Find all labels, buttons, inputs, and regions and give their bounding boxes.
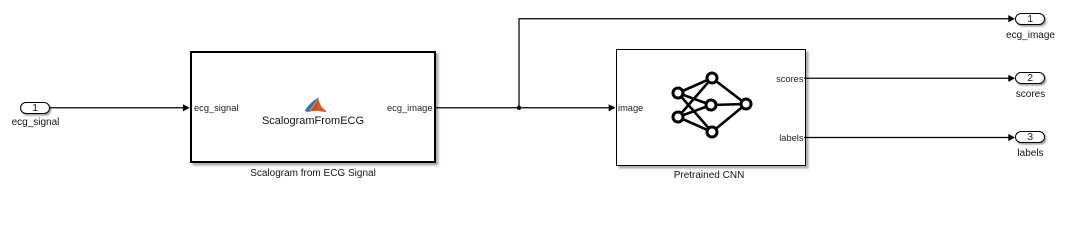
port label ecg_signal (inside subsystem, left) [194, 104, 238, 113]
arrowhead into CNN [609, 104, 616, 111]
port label labels (inside CNN, right) [743, 134, 804, 143]
arrowhead into outport3 [1008, 134, 1015, 141]
block: Scalogram from ECG Signal (subsystem) [190, 51, 437, 162]
wire: inport1 -> subsystem [50, 19, 1009, 138]
inport 1 (ecg_signal) [20, 102, 50, 114]
label ecg_signal [0, 117, 71, 128]
label scores [996, 89, 1065, 100]
inner label: ScalogramFromECG [213, 115, 413, 127]
block name: Pretrained CNN [609, 170, 809, 181]
wire: labels -> outport3 [804, 137, 1009, 139]
label labels [996, 148, 1065, 159]
outport 3 (labels) [1015, 131, 1045, 143]
outport 1 (ecg_image) [1015, 13, 1045, 25]
port label scores (inside CNN, right) [743, 75, 804, 84]
block: Pretrained CNN [616, 49, 806, 166]
port label ecg_image (inside subsystem, right) [372, 104, 433, 113]
junction dot [517, 106, 521, 110]
wire: scores -> outport2 [804, 77, 1009, 79]
port label image (inside CNN, left) [618, 104, 643, 113]
outport 2 (scores) [1015, 72, 1045, 84]
block name: Scalogram from ECG Signal [213, 168, 413, 179]
wire: branch up to outport1 [519, 19, 1009, 108]
arrowhead into outport1 [1008, 15, 1015, 22]
icon: neural network (Pretrained CNN) [678, 78, 746, 132]
arrowhead into subsystem [183, 104, 190, 111]
arrowhead into outport2 [1008, 75, 1015, 82]
icon: MATLAB logo (membrane) [305, 97, 327, 112]
wire: subsystem -> CNN [434, 107, 609, 109]
label ecg_image [996, 30, 1065, 41]
